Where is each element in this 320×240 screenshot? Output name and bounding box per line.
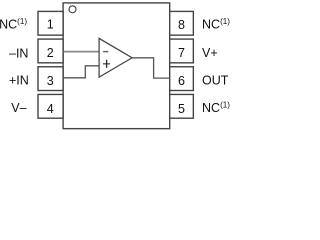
svg-text:8: 8 [178,18,185,32]
pin 1 box [38,11,63,35]
IC package body [63,3,170,129]
pin 8 box [170,11,194,35]
svg-text:7: 7 [178,46,185,60]
svg-text:V+: V+ [202,46,218,60]
svg-text:5: 5 [178,102,185,116]
wire +IN pin3 to op-amp (step) [64,66,99,78]
svg-text:OUT: OUT [202,74,229,88]
svg-text:4: 4 [47,102,54,116]
pin 2 box [38,39,63,63]
op-amp plus input sign [103,63,110,65]
svg-text:2: 2 [47,46,54,60]
svg-text:3: 3 [47,74,54,88]
pin-1 indicator circle [69,6,76,13]
svg-text:6: 6 [178,74,185,88]
pin 5 box [170,94,194,118]
pin 7 box [170,39,194,63]
op-amp minus input sign [103,51,108,53]
pin 4 box [38,94,63,118]
op-amp triangle [99,38,132,77]
wire -IN pin2 to op-amp [64,51,99,53]
svg-text:1: 1 [47,18,54,32]
svg-text:+IN: +IN [9,74,29,88]
wire OUT op-amp to pin6 [132,58,170,78]
pin 6 box [170,67,194,91]
svg-text:V–: V– [11,101,26,115]
svg-text:–IN: –IN [9,47,28,61]
pin 3 box [38,67,63,91]
